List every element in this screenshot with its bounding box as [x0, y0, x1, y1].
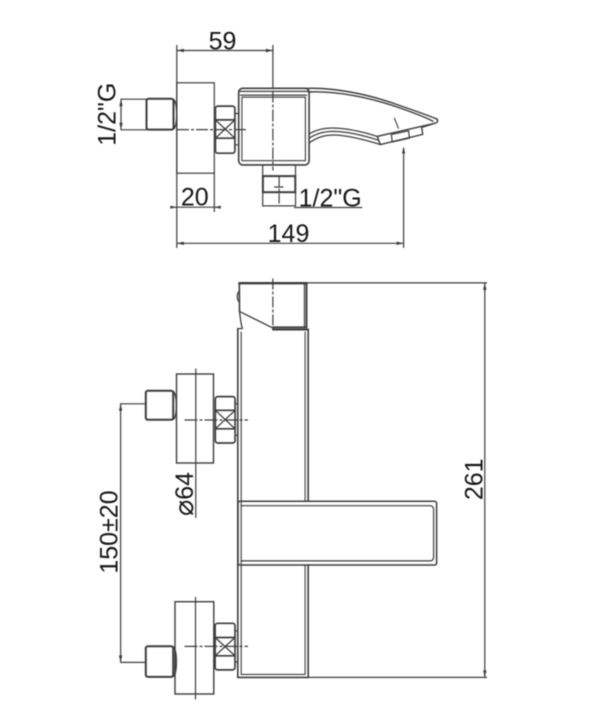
lower inlet nipple — [146, 646, 173, 677]
nipple-flange transition arc — [174, 100, 177, 129]
svg-text:20: 20 — [181, 183, 209, 211]
upper wall flange (front view) — [177, 374, 214, 463]
svg-text:1/2"G: 1/2"G — [299, 184, 362, 212]
upper inlet nipple — [146, 391, 173, 420]
svg-text:150±20: 150±20 — [96, 490, 124, 573]
lower nipple transition arc — [174, 647, 177, 676]
spout tip cap — [434, 119, 438, 124]
mixer body (top view) — [239, 88, 309, 165]
spout top inner curve — [309, 92, 434, 121]
dimension 261 — [307, 283, 489, 678]
leader from aerator down to 149 dimension — [403, 149, 405, 248]
upper connection centerline — [185, 419, 248, 421]
svg-text:261: 261 — [461, 458, 489, 500]
handle centerline — [272, 279, 274, 332]
lower crossed connector — [215, 623, 235, 670]
upper crossed connector — [215, 397, 235, 443]
inlet nipple 1/2"G (top view) — [147, 99, 174, 130]
svg-text:59: 59 — [209, 27, 237, 55]
aerator — [391, 131, 409, 142]
upper flange centerline vertical — [195, 369, 197, 517]
extension line left (wall face) — [176, 46, 178, 248]
outlet centerline cross — [278, 177, 280, 204]
spout (front view, horizontal T) — [238, 501, 437, 565]
spout end face — [377, 124, 434, 145]
upper nipple transition arc — [174, 392, 177, 420]
svg-text:149: 149 — [268, 220, 310, 248]
centerline through flange/connector (top view) — [178, 129, 248, 131]
dimension 59 — [177, 27, 273, 55]
body vertical centerline (top view) — [272, 91, 274, 170]
lower flange centerline vertical — [195, 598, 197, 700]
extension line right (body centerline extended) — [272, 46, 274, 89]
dimension 150±20 — [96, 404, 124, 663]
leader underline for outlet label — [295, 207, 362, 209]
dimension 20 — [170, 173, 221, 211]
spout (top view) — [306, 88, 438, 144]
body (front view) — [238, 329, 308, 678]
tick mark on spout above aerator — [394, 118, 398, 128]
lower wall flange (front view) — [175, 602, 214, 694]
outlet connector below body (top view) — [263, 165, 296, 206]
dimension 149 — [177, 220, 404, 248]
nipple size dimension bracket — [119, 99, 146, 130]
spout neck underside curves — [309, 128, 377, 136]
wall flange (top view) — [177, 83, 215, 173]
spout top outer curve — [306, 88, 436, 119]
upper leader for 150 dim — [121, 403, 146, 405]
lower connection centerline — [185, 645, 248, 647]
lower leader for 150 dim — [121, 661, 146, 663]
svg-text:1/2"G: 1/2"G — [94, 83, 122, 146]
connector tabs to body — [235, 113, 239, 115]
handle (lever cap) — [237, 283, 306, 328]
svg-text:⌀64: ⌀64 — [169, 472, 199, 516]
crossed connector (eccentric union, top view) — [215, 106, 235, 153]
